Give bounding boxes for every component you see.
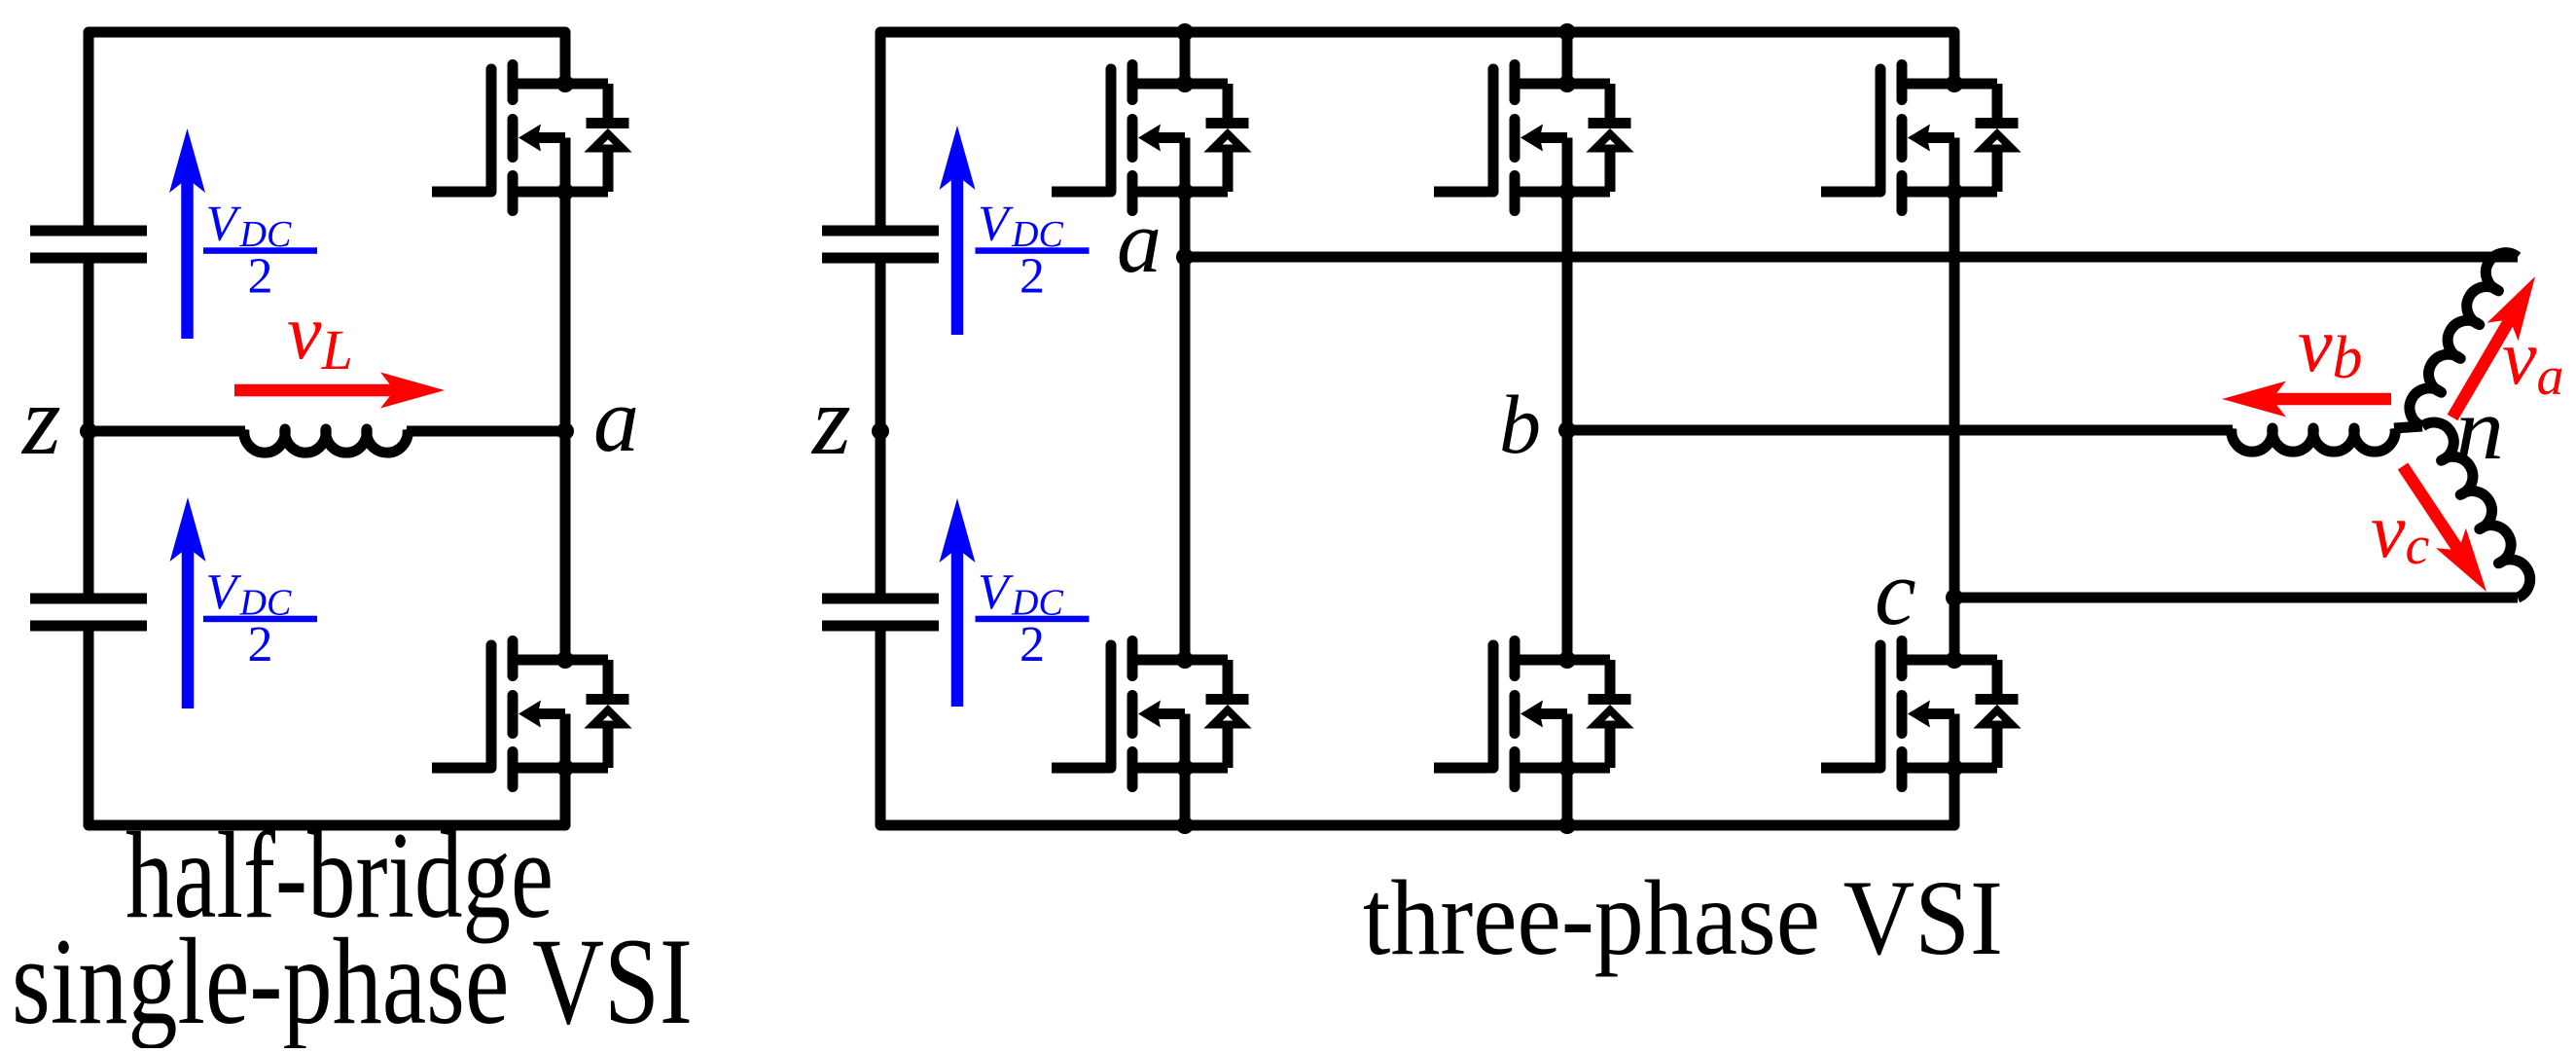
svg-text:a: a [593, 370, 639, 471]
svg-text:V: V [978, 197, 1014, 252]
svg-text:2: 2 [1020, 617, 1045, 672]
svg-text:z: z [810, 366, 851, 476]
svg-text:2: 2 [248, 248, 273, 304]
svg-text:V: V [978, 564, 1014, 620]
svg-text:c: c [1875, 540, 1916, 644]
svg-text:n: n [2455, 381, 2504, 478]
svg-text:three-phase VSI: three-phase VSI [1363, 858, 2003, 977]
svg-text:single-phase VSI: single-phase VSI [12, 914, 693, 1048]
svg-text:2: 2 [248, 617, 273, 672]
svg-text:2: 2 [1020, 248, 1045, 304]
svg-text:b: b [1499, 378, 1541, 471]
svg-text:a: a [1117, 192, 1162, 291]
svg-text:z: z [20, 366, 61, 476]
svg-text:V: V [206, 564, 242, 620]
svg-text:V: V [206, 197, 242, 252]
